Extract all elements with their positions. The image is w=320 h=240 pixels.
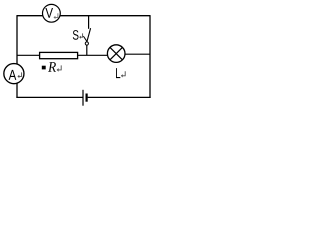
wire right vertical [149,15,151,98]
switch blade cross stroke [83,36,87,42]
wire bottom left segment [16,96,82,98]
switch label letter S [73,30,79,40]
wire left vertical [16,15,18,98]
voltmeter circle [43,4,61,22]
switch label return mark [79,33,82,38]
battery long positive plate [82,90,84,106]
switch blade [87,28,91,42]
switch upper stem wire [88,16,90,29]
ammeter letter A [9,70,17,80]
ammeter circle [4,64,24,84]
ammeter return mark [17,72,21,78]
wire top horizontal [17,15,150,17]
wire middle right segment (through lamp) [124,53,150,55]
switch lower stem wire [86,45,88,55]
resistor R label bullet square [42,66,46,70]
battery short thick negative plate [86,94,88,102]
voltmeter return mark [54,13,58,19]
lamp circle [107,45,125,63]
wire middle left segment (through resistor) [17,54,109,56]
lamp cross stroke 1 [110,47,122,59]
resistor R label return mark [57,65,62,71]
voltmeter letter V [45,8,53,18]
switch hinge circle [85,42,88,45]
lamp cross stroke 2 [110,47,122,59]
wire bottom right segment [88,96,151,98]
lamp label return mark [121,71,125,77]
resistor R body [40,52,78,58]
resistor R label letter [48,62,56,72]
lamp label letter L [116,68,120,78]
